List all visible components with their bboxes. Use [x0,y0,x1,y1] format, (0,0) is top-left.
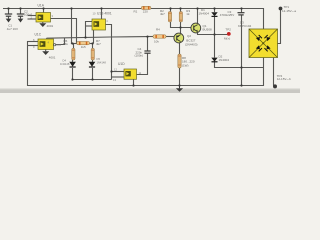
wire U1B output [106,25,112,80]
svg-text:U1C: U1C [35,33,42,37]
wire U1A input stubs [28,15,37,17]
wire Q1 emitter to TP2 [198,32,228,35]
svg-text:U1D: U1D [118,62,125,66]
wire bottom rail [28,41,264,86]
wire D5 leads [92,60,94,62]
node C3/ground rail [240,84,242,86]
node R4/C4/W1 [146,36,148,38]
terminal label output [277,74,291,81]
resistor R6 vertical left [63,39,75,60]
node D4 bus [71,78,73,80]
node U1B top [100,7,102,9]
resistor R4 horizontal [153,28,166,44]
ground under U1C [42,50,56,60]
transistor Q2 [174,33,198,46]
svg-text:56k: 56k [63,42,68,46]
wire R4 leads [148,36,154,38]
svg-text:1N4004: 1N4004 [219,58,230,62]
wire U1A top pin [43,9,45,13]
svg-text:220: 220 [143,9,148,13]
wire U1B top pin [101,9,103,20]
node R2/rail [169,7,171,9]
wire R4-left vertical resistor top lead [73,44,75,49]
terminal TP1 [279,7,283,11]
svg-text:1N4004: 1N4004 [199,11,210,15]
svg-text:4001: 4001 [47,24,54,28]
node V1/rail [70,7,72,9]
wire D1 D2 chain [214,9,216,13]
gate U1B [92,11,112,30]
wire TP1 drop [278,9,281,44]
svg-text:4u7 16V: 4u7 16V [7,27,18,31]
svg-text:1k5: 1k5 [81,45,86,49]
terminal label TP1 [282,5,296,13]
resistor R1 on rail [134,6,151,13]
wire Q1 collector [197,9,199,25]
node U1A top [42,7,44,9]
node D1/rail [213,7,215,9]
wire C4 top lead [147,37,149,51]
svg-text:12-15V~-a: 12-15V~-a [282,9,296,13]
terminal output bottom [273,84,277,88]
diode D5 [89,57,107,67]
resistor R7 vertical right [91,39,101,60]
node C1/rail [7,7,9,9]
wire R2 bottom to Q1 base [171,22,191,28]
wire U1B bottom pin [93,30,95,44]
svg-text:4700u/25V: 4700u/25V [220,13,235,17]
svg-text:4k7: 4k7 [160,12,165,16]
wire top rail [3,9,264,30]
node R5 left [71,42,73,44]
svg-text:10k: 10k [154,40,159,44]
wire U1C input stubs [28,41,39,43]
wire diode bottom bus [73,79,112,81]
wire R5 right node [90,43,94,45]
resistor R2 [160,9,172,22]
gate U1C [33,33,61,50]
gate U1A [31,3,54,22]
svg-text:U1B 4001: U1B 4001 [97,11,112,15]
svg-text:KBPC104: KBPC104 [238,24,252,28]
node W1/U1B inputs [84,36,86,38]
ground main arrow [176,86,183,92]
svg-text:R1: R1 [134,9,138,13]
wire D4 leads [72,60,74,62]
node D1-D2/Q1 emitter [213,33,215,35]
node D5 bus [91,78,93,80]
gate U1D [113,62,142,82]
resistor R3 [179,9,190,22]
svg-text:4001: 4001 [49,56,56,60]
capacitor C2 [17,9,31,22]
wire U1A output [51,19,77,44]
svg-text:R4: R4 [156,28,160,32]
svg-text:(1W): (1W) [182,63,189,67]
wire R2 top lead [170,9,172,12]
node U1D pin12 [110,70,112,72]
svg-text:12-15V~-b: 12-15V~-b [277,77,291,81]
bottom edge shading [0,89,300,93]
svg-text:1N4148: 1N4148 [97,60,107,64]
node C3/D2 bus [240,66,242,68]
svg-text:(100n): (100n) [135,53,144,57]
svg-text:1N4148: 1N4148 [60,62,70,66]
svg-text:(2N4403): (2N4403) [185,42,198,46]
diode D2 [211,54,229,62]
svg-text:M(+): M(+) [224,37,230,41]
wire U1C output riser [61,38,65,45]
wire C2 stub [20,9,22,14]
node R3/Q2 collector [179,26,181,28]
wire rail to R5 node (vertical V1) [71,9,73,44]
node R5 right [91,42,93,44]
svg-text:U1A: U1A [38,3,45,7]
wire R3 top lead [180,9,182,12]
capacitor C4 [135,47,151,57]
diode D1 [199,8,218,16]
wire U1D bottom pin to ground rail [133,79,135,85]
resistor R5 horizontal [77,42,90,50]
wire C1 stub [8,9,10,14]
svg-text:1k: 1k [186,12,190,16]
node Q1 collector/rail [196,7,198,9]
junction dots on top rail [7,7,282,89]
capacitor C3 [220,10,245,17]
wire bridge bottom-right to terminal [274,58,275,87]
wire R8 bottom lead [179,68,181,86]
diode D4 [60,59,76,68]
resistor R8 [178,54,195,68]
wire U1B input tie [86,22,93,38]
node R3/rail [179,7,181,9]
node R8 ground [178,84,180,86]
node U1D ground [132,84,134,86]
svg-text:4k7: 4k7 [96,42,101,46]
transistor Q1 [191,23,212,33]
svg-text:BU508: BU508 [203,27,213,31]
wire R7 top lead [92,44,94,49]
wire R3 bottom / Q2 collector [180,22,182,33]
node C2/rail [19,7,21,9]
wire C3 vertical [241,9,243,13]
svg-text:TP2: TP2 [225,27,231,31]
wire R5 left node riser [71,43,77,45]
wire U1D output [136,53,147,74]
ground under U1A [39,22,53,28]
bridge rectifier D3 [238,20,278,57]
wire W1 horizontal [46,38,48,39]
node C3/rail [240,7,242,9]
capacitor C1 [5,14,18,31]
wire Q2 emitter to R8 [179,43,181,54]
test point TP2 [224,27,231,40]
